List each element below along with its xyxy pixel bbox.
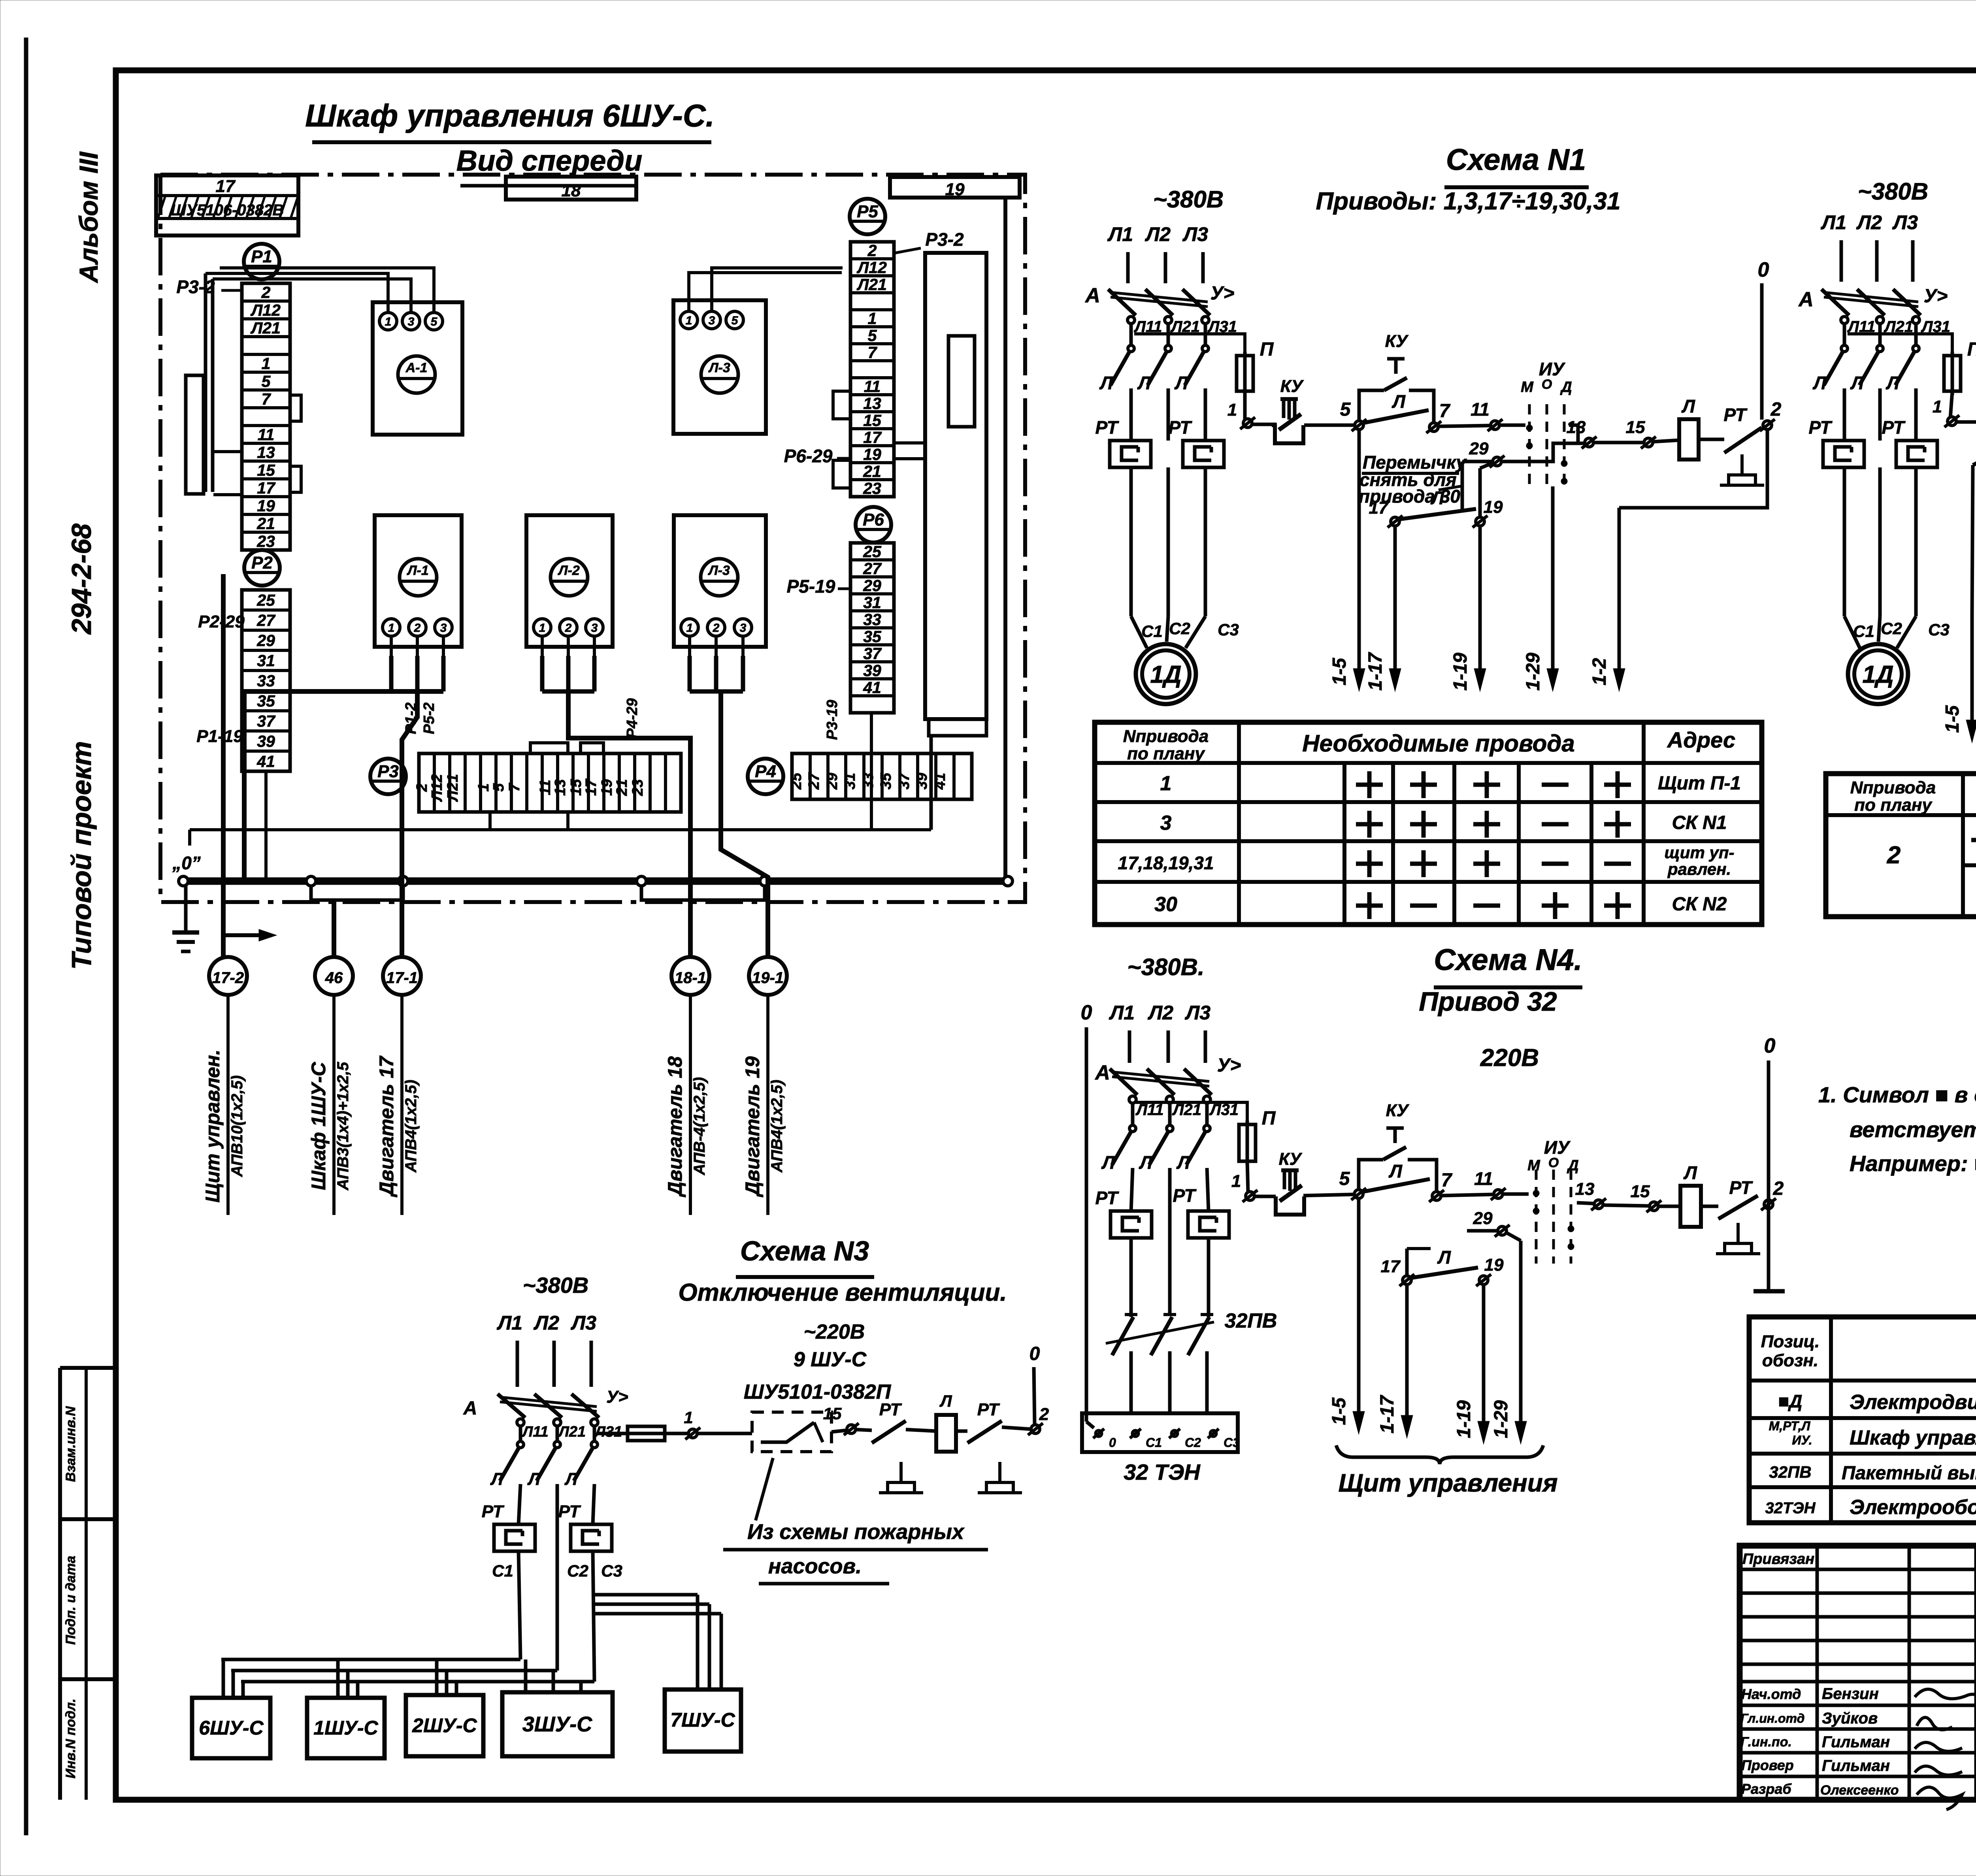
wire node13 to node15 [1593, 441, 1644, 445]
svg-text:Привязан: Привязан [1742, 1551, 1814, 1567]
wires from А-1 to strip [206, 273, 388, 313]
svg-text:Шкаф 1ШУ-С: Шкаф 1ШУ-С [307, 1062, 330, 1190]
bus lower loop right [641, 886, 765, 900]
svg-text:Р3-19: Р3-19 [824, 700, 841, 740]
svg-text:17: 17 [583, 778, 600, 796]
relay unit Л-3 dial [701, 356, 738, 393]
svg-text:19: 19 [257, 497, 275, 515]
svg-text:У>: У> [1210, 283, 1235, 304]
svg-text:Л21: Л21 [558, 1424, 586, 1440]
wire bundle from Л-2 [540, 656, 545, 691]
stop КУ N2 [1956, 420, 1976, 424]
svg-text:Шкаф управления 6ШУ-С.: Шкаф управления 6ШУ-С. [305, 98, 715, 133]
svg-text:У>: У> [606, 1387, 628, 1407]
svg-text:37: 37 [863, 644, 882, 663]
svg-text:Л: Л [1139, 1152, 1153, 1173]
fuse tap N2 [1848, 334, 1952, 356]
fuse П [1237, 352, 1253, 395]
wire bundle from Л-1 [389, 656, 394, 691]
connector lines strip to tall rect [894, 441, 925, 445]
svg-text:46: 46 [325, 969, 343, 987]
node 29 [1490, 456, 1505, 467]
wire node1 to dashed box [697, 1432, 752, 1435]
wire node15 to coil [1653, 440, 1679, 442]
svg-text:Приводы: 1,3,17÷19,30,31: Приводы: 1,3,17÷19,30,31 [1316, 188, 1620, 215]
svg-text:32ТЭН: 32ТЭН [1765, 1499, 1816, 1517]
svg-text:25: 25 [788, 772, 805, 790]
svg-text:13: 13 [552, 779, 569, 796]
cable circle 46 [315, 957, 353, 995]
svg-text:7: 7 [868, 343, 878, 362]
svg-text:Р3-2: Р3-2 [925, 229, 964, 250]
svg-text:Двигатель 19: Двигатель 19 [741, 1056, 764, 1197]
risers into 6ШУ-С [222, 1659, 225, 1698]
relay unit Л-2 terminals [534, 619, 603, 636]
title block outer frame [1740, 1546, 1976, 1800]
svg-text:С1: С1 [1853, 622, 1874, 640]
svg-text:Электродвигатель: Электродвигатель [1850, 1391, 1976, 1414]
aux Л N4 [1363, 1179, 1430, 1192]
svg-text:19-1: 19-1 [752, 969, 784, 987]
terminal strip right lower [850, 542, 894, 713]
neutral 0 N3 [1034, 1367, 1035, 1425]
РТ trip N4 [1718, 1196, 1758, 1219]
svg-text:294-2-68: 294-2-68 [66, 524, 97, 635]
svg-text:Схема N3: Схема N3 [740, 1236, 869, 1266]
svg-text:Л3: Л3 [1892, 211, 1918, 234]
svg-text:3: 3 [740, 622, 747, 635]
svg-text:1: 1 [1231, 1172, 1241, 1191]
svg-text:Гл.ин.отд: Гл.ин.отд [1740, 1711, 1804, 1725]
svg-text:1. Символ ■ в обозначении апп: 1. Символ ■ в обозначении аппарата соот- [1818, 1082, 1976, 1107]
svg-text:1-5: 1-5 [1942, 705, 1963, 733]
svg-text:17: 17 [216, 177, 236, 196]
svg-text:М,РТ,Л: М,РТ,Л [1769, 1419, 1811, 1433]
contactor main contacts Л [1111, 345, 1134, 385]
ИУ command block [1521, 359, 1572, 486]
svg-text:С2: С2 [1185, 1435, 1201, 1450]
svg-text:Р5-19: Р5-19 [787, 576, 835, 597]
wire from step box down [930, 736, 933, 830]
svg-text:19: 19 [1484, 497, 1503, 517]
collector risers [264, 771, 268, 881]
svg-text:„0”: „0” [172, 853, 201, 873]
motor 1Д [1136, 644, 1196, 704]
svg-text:Л2: Л2 [1148, 1002, 1173, 1024]
svg-text:Л1: Л1 [497, 1312, 522, 1334]
wire dashed box to node15 [832, 1430, 847, 1432]
jumper 17-Л-19 N4 [1399, 1274, 1414, 1286]
output 1-19 N4 [1478, 1285, 1490, 1444]
relay unit Л-1 box [375, 515, 462, 647]
svg-text:5: 5 [1340, 399, 1351, 420]
svg-text:Л1: Л1 [1821, 211, 1846, 234]
svg-text:0: 0 [1029, 1343, 1040, 1364]
table N1 verticals [1237, 722, 1241, 925]
node 15 N3 [844, 1423, 859, 1435]
svg-text:9 ШУ-С: 9 ШУ-С [794, 1348, 867, 1371]
wires from Л-3 top box to right strip [689, 273, 842, 311]
wire to node13 N4 [1577, 1203, 1593, 1204]
svg-text:Л2: Л2 [534, 1312, 559, 1334]
start bracket N4 [1359, 1160, 1383, 1189]
relay symbol P4 [748, 759, 783, 794]
svg-text:1: 1 [1933, 397, 1942, 416]
РТ trip 1 N3 [872, 1421, 906, 1443]
wire to node1 N2 [1950, 391, 1952, 418]
wire: cabinet to cable 17-2 [221, 574, 226, 957]
svg-text:3: 3 [440, 622, 447, 635]
svg-text:Щит П-1: Щит П-1 [1658, 773, 1741, 794]
contacts Л N4 [1112, 1125, 1136, 1165]
cable circle 17-2 [209, 957, 247, 995]
svg-text:18: 18 [562, 181, 581, 200]
note leader arrow N3 [756, 1458, 773, 1520]
svg-text:0: 0 [1081, 1001, 1092, 1024]
wire to coil N3 [906, 1430, 936, 1431]
underline N3 [736, 1275, 874, 1279]
thick loop wire from Л-1 to bus [244, 691, 443, 878]
node 2 N3 [1028, 1423, 1043, 1435]
svg-text:1: 1 [868, 309, 877, 328]
list table verticals [1829, 1317, 1833, 1523]
svg-text:17,18,19,31: 17,18,19,31 [1118, 853, 1214, 873]
svg-text:П: П [1967, 339, 1976, 360]
svg-text:32 ТЭН: 32 ТЭН [1124, 1460, 1201, 1484]
wires РТ to cabinets N3 [519, 1551, 520, 1659]
svg-text:Л: Л [1101, 1152, 1115, 1173]
wire fuse to node 1 [1243, 391, 1247, 420]
svg-text:1: 1 [388, 622, 395, 635]
relay unit Л-3 lower terminal stubs [688, 637, 691, 656]
device box N3 [936, 1415, 956, 1452]
svg-text:13: 13 [1567, 418, 1586, 437]
ties from verticals to strip [213, 450, 242, 453]
svg-text:Гильман: Гильман [1822, 1757, 1890, 1774]
thermal element РТ left [1110, 441, 1151, 467]
svg-text:13: 13 [257, 443, 275, 461]
svg-text:220В: 220В [1480, 1044, 1539, 1072]
contactor coil Л [1679, 419, 1699, 460]
svg-text:Л: Л [1099, 373, 1113, 393]
svg-text:41: 41 [932, 773, 948, 790]
svg-text:КУ: КУ [1279, 1149, 1303, 1169]
svg-text:2: 2 [1770, 399, 1782, 420]
svg-text:С1: С1 [492, 1561, 513, 1580]
jumper wire to node29 [1462, 460, 1492, 463]
ИУ block N4 [1527, 1137, 1579, 1264]
relay symbol P2 [244, 550, 280, 586]
curly brace Щит управления [1336, 1445, 1543, 1464]
wire node7 to node11 [1439, 426, 1490, 426]
svg-text:0: 0 [1109, 1435, 1116, 1450]
svg-text:3: 3 [1160, 812, 1172, 834]
svg-text:С3: С3 [601, 1561, 622, 1580]
svg-text:29: 29 [863, 576, 881, 595]
svg-text:Гильман: Гильман [1822, 1733, 1890, 1751]
svg-text:Схема N1: Схема N1 [1446, 143, 1586, 177]
relay unit А-1 dial [398, 356, 435, 393]
node 5 N4 [1351, 1188, 1366, 1200]
svg-text:Из схемы пожарных: Из схемы пожарных [747, 1520, 965, 1544]
svg-text:2: 2 [414, 622, 421, 635]
wire 15-coil N4 [1659, 1205, 1680, 1208]
svg-text:35: 35 [863, 627, 882, 646]
svg-text:СК N1: СК N1 [1672, 812, 1727, 833]
svg-text:37: 37 [896, 772, 913, 789]
output 1-5 N4 [1353, 1198, 1365, 1434]
svg-text:1-2: 1-2 [1589, 658, 1610, 686]
wire box to РТ2 N3 [956, 1430, 967, 1433]
list table horizontals [1749, 1379, 1976, 1383]
svg-text:3ШУ-С: 3ШУ-С [522, 1712, 592, 1736]
svg-text:ШУ5101-0382П: ШУ5101-0382П [744, 1381, 892, 1403]
wire РТ2 to node2 N3 [1002, 1427, 1031, 1429]
svg-text:Провер: Провер [1741, 1757, 1794, 1773]
svg-text:33: 33 [863, 610, 881, 629]
svg-text:РТ: РТ [1729, 1177, 1753, 1198]
svg-text:Л: Л [939, 1392, 952, 1410]
svg-text:Инв.N подл.: Инв.N подл. [63, 1699, 78, 1778]
title underline [1444, 185, 1589, 189]
svg-text:Nпривода: Nпривода [1850, 778, 1936, 797]
narrow rect left of strip [186, 375, 204, 494]
svg-text:17: 17 [1381, 1257, 1401, 1276]
contactor contacts Л N3 [519, 1426, 522, 1441]
svg-text:1: 1 [686, 622, 693, 635]
step box below tall rect [929, 719, 986, 736]
node 13 [1582, 437, 1597, 448]
svg-text:31: 31 [257, 652, 275, 670]
РТ trip contact [1724, 428, 1762, 453]
svg-text:Л-3: Л-3 [707, 563, 730, 578]
phase supply wires [1128, 1030, 1131, 1063]
svg-text:1: 1 [684, 1408, 693, 1427]
svg-text:21: 21 [863, 462, 881, 480]
wires РТ to motor N2 [1843, 467, 1846, 616]
node 1 N4 [1243, 1190, 1258, 1202]
zero bus junctions [306, 876, 316, 886]
thermal РТ N4 right [1188, 1211, 1229, 1238]
wire node29 to node13 branch [1502, 443, 1585, 461]
svg-text:С3: С3 [1928, 620, 1950, 639]
svg-text:С2: С2 [1881, 619, 1902, 638]
svg-text:1-17: 1-17 [1365, 652, 1386, 691]
svg-text:7: 7 [262, 390, 272, 408]
breaker А N2 [1821, 289, 1921, 324]
svg-text:С2: С2 [1169, 619, 1190, 638]
svg-text:2: 2 [713, 622, 720, 635]
cable circle 17-1 [383, 957, 421, 995]
svg-text:3: 3 [408, 315, 415, 328]
wire left 0 into ТЭН [1086, 1422, 1094, 1428]
svg-text:Р4: Р4 [755, 762, 776, 781]
svg-text:1: 1 [1160, 772, 1172, 795]
svg-text:ИУ.: ИУ. [1792, 1433, 1812, 1447]
start button bracket [1359, 390, 1384, 420]
svg-text:Л12: Л12 [250, 301, 281, 319]
svg-text:1: 1 [686, 314, 692, 327]
wires contacts to РТ [1129, 388, 1133, 441]
relay unit Л-2 terminal stubs [541, 637, 544, 656]
thermal РТ N2 right [1896, 441, 1937, 467]
svg-text:41: 41 [863, 678, 881, 697]
thermal element РТ right [1183, 441, 1224, 467]
relay symbol P3 [370, 759, 406, 794]
cabinet box 3ШУ-С [502, 1692, 613, 1756]
label box 17 / ШУ5106-0382В [156, 175, 298, 235]
svg-text:1-5: 1-5 [1329, 657, 1350, 686]
svg-text:1Д: 1Д [1862, 661, 1893, 688]
svg-text:Л: Л [1885, 373, 1900, 393]
svg-text:Л1: Л1 [1107, 223, 1133, 245]
svg-text:Схема N4.: Схема N4. [1434, 943, 1582, 977]
svg-text:13: 13 [1575, 1179, 1595, 1199]
svg-text:Двигатель 18: Двигатель 18 [664, 1056, 686, 1197]
node 1 N3 [685, 1428, 700, 1439]
svg-text:19: 19 [945, 180, 965, 199]
svg-text:1: 1 [1227, 400, 1237, 420]
jumper contact 17-Л-19 [1388, 516, 1403, 527]
svg-text:КУ: КУ [1385, 332, 1409, 351]
РТ reset 2 N3 [978, 1462, 1022, 1493]
wire bundle from Л-3 lower [688, 656, 692, 691]
svg-text:15: 15 [568, 779, 585, 796]
svg-text:■Д: ■Д [1778, 1391, 1802, 1411]
fuse П N2 [1944, 352, 1961, 395]
svg-text:Л3: Л3 [1182, 223, 1208, 245]
svg-text:О: О [1542, 377, 1552, 392]
svg-text:Взам.инв.N: Взам.инв.N [63, 1406, 78, 1482]
svg-text:Бензин: Бензин [1822, 1685, 1879, 1703]
svg-text:Л-2: Л-2 [557, 563, 580, 578]
output 1-29 N4 [1515, 1241, 1527, 1444]
wire node7-11 N4 [1441, 1194, 1493, 1196]
risers into 2ШУ-С [435, 1659, 439, 1695]
note leader [1439, 486, 1462, 490]
wire to node5 N4 [1303, 1194, 1353, 1196]
relay symbol P6 [856, 507, 891, 542]
output wire 1-2 [1619, 429, 1767, 508]
risers into 1ШУ-С [336, 1659, 340, 1698]
svg-text:Л-3: Л-3 [708, 360, 730, 375]
relay unit А-1 terminals 1 3 5 [379, 313, 443, 330]
wire to node1 N3 [665, 1432, 688, 1435]
relay unit Л-3 terminals 1 3 5 [680, 311, 743, 329]
svg-text:11: 11 [258, 426, 275, 444]
node 5 [1352, 419, 1367, 431]
wire right side down to bus end [1003, 200, 1007, 876]
svg-text:0: 0 [1764, 1034, 1776, 1057]
phase supply wires [1126, 252, 1130, 283]
svg-text:Отключение вентиляции.: Отключение вентиляции. [678, 1279, 1007, 1306]
node 1 [1240, 417, 1255, 429]
cabinet outline (dash-dot) [160, 175, 1025, 902]
svg-text:АПВ4(1х2,5): АПВ4(1х2,5) [768, 1080, 786, 1173]
svg-text:1: 1 [539, 622, 546, 635]
svg-text:15: 15 [1626, 418, 1645, 437]
svg-text:27: 27 [806, 772, 822, 790]
svg-text:Л: Л [1388, 1161, 1403, 1181]
wire to cable 46 [332, 900, 336, 957]
svg-text:2: 2 [261, 283, 271, 301]
ground symbol [172, 886, 199, 951]
svg-text:Л21: Л21 [445, 774, 461, 802]
svg-text:РТ: РТ [482, 1502, 505, 1521]
svg-text:А-1: А-1 [405, 360, 428, 375]
svg-text:Р3-2: Р3-2 [176, 277, 215, 297]
svg-text:Пакетный выключатель (ПВ3-10У3: Пакетный выключатель (ПВ3-10У3) [1842, 1463, 1976, 1484]
svg-text:РТ: РТ [558, 1502, 581, 1521]
relay unit Л-3 lower terminals [681, 619, 752, 636]
svg-text:~380В: ~380В [523, 1273, 589, 1298]
node 15 N4 [1646, 1200, 1661, 1212]
svg-text:29: 29 [1473, 1209, 1493, 1228]
svg-text:Р6-29: Р6-29 [784, 446, 833, 466]
wire node15 to РТ N3 [856, 1430, 872, 1430]
svg-text:Электрообогрев клапана: Электрообогрев клапана [1850, 1496, 1976, 1519]
heater box 32ТЭН [1082, 1413, 1238, 1452]
svg-text:21: 21 [256, 514, 275, 533]
start button КУ blade [1384, 378, 1407, 390]
wire КУ to node 5 [1304, 424, 1354, 427]
svg-text:Д: Д [1560, 379, 1572, 396]
svg-text:Л2: Л2 [1145, 223, 1171, 245]
cable circle 19-1 [749, 957, 787, 995]
label box 18 [506, 177, 636, 200]
svg-text:РТ: РТ [1808, 417, 1833, 438]
svg-text:3: 3 [591, 622, 598, 635]
svg-text:27: 27 [256, 611, 276, 629]
svg-text:Р6: Р6 [863, 510, 884, 529]
РТ trip 2 N3 [967, 1421, 1002, 1443]
wire node11 through ИУ [1500, 424, 1525, 427]
svg-text:23: 23 [630, 779, 646, 796]
svg-text:АПВ10(1х2,5): АПВ10(1х2,5) [228, 1075, 246, 1177]
output wire 1-17 [1389, 526, 1401, 691]
terminal strip left upper [242, 283, 290, 550]
svg-text:насосов.: насосов. [768, 1554, 862, 1578]
svg-text:А: А [1798, 288, 1814, 311]
neutral end bar N4 [1754, 1289, 1785, 1294]
wire coil to РТ contact [1699, 438, 1724, 441]
zero bus wire [183, 878, 1008, 885]
risers into 3ШУ-С [524, 1659, 528, 1692]
svg-text:РТ: РТ [1173, 1185, 1197, 1206]
relay unit Л-3 lower dial [701, 559, 738, 596]
terminal strip left lower [242, 590, 290, 771]
svg-text:Л: Л [527, 1469, 541, 1489]
tabs on left strip right side [290, 395, 301, 421]
table N2 frame [1826, 774, 1976, 917]
wire table N1 frame [1095, 722, 1762, 925]
cabinet title underline [312, 140, 711, 144]
svg-text:35: 35 [257, 692, 275, 710]
svg-text:Нач.отд: Нач.отд [1741, 1686, 1801, 1702]
svg-text:Л11: Л11 [521, 1424, 549, 1440]
svg-text:М: М [1527, 1157, 1540, 1174]
svg-text:Двигатель 17: Двигатель 17 [375, 1055, 398, 1197]
svg-text:РТ: РТ [1723, 405, 1748, 425]
svg-text:обозн.: обозн. [1762, 1351, 1818, 1370]
bottom terminal strip right [788, 753, 972, 799]
thermal РТ N3 left [494, 1524, 535, 1551]
svg-text:щит уп-: щит уп- [1665, 843, 1735, 862]
relay symbol P1 [244, 244, 279, 279]
svg-text:РТ: РТ [977, 1400, 1000, 1419]
svg-text:Л12: Л12 [429, 774, 445, 802]
svg-text:по плану: по плану [1127, 744, 1205, 763]
